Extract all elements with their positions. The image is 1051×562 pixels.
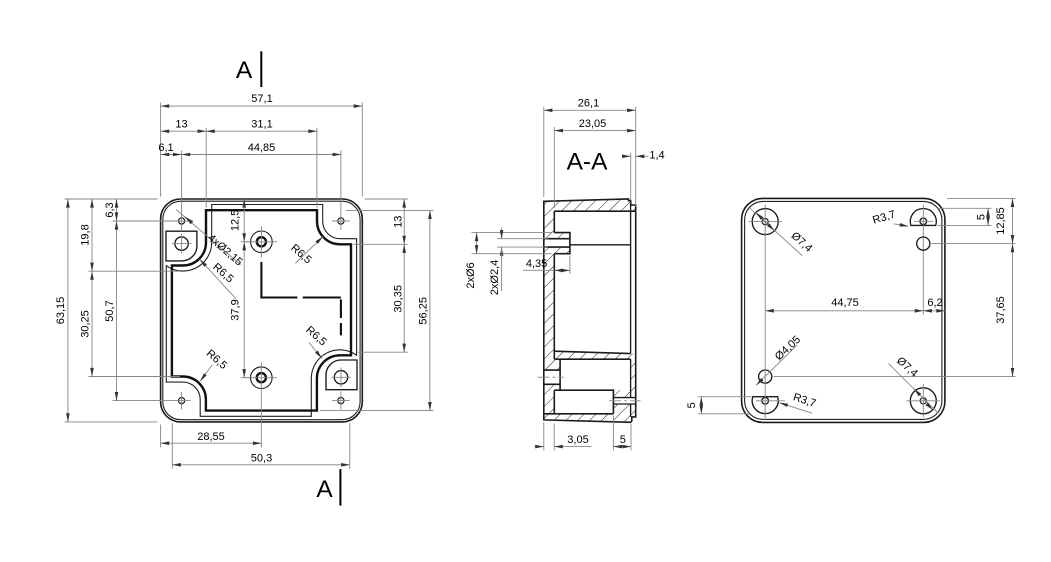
centerline foot hole (609, 400, 641, 402)
dim 5 top-right (937, 207, 992, 209)
hatch boss2 (554, 359, 560, 390)
rim step verticals (630, 205, 632, 417)
outer profile of section (544, 199, 636, 422)
dim 12,85 (947, 197, 1016, 199)
svg-text:12,85: 12,85 (995, 207, 1007, 235)
label R6,5 bottom-left (200, 365, 212, 382)
svg-text:6,2: 6,2 (927, 297, 942, 309)
svg-text:5: 5 (620, 434, 626, 446)
centerline boss2 hole (538, 376, 565, 378)
svg-text:30,25: 30,25 (79, 310, 91, 338)
recess circle bottom-right (910, 388, 936, 414)
svg-text:6,1: 6,1 (158, 142, 173, 154)
hatch shelf band (554, 351, 630, 359)
svg-text:63,15: 63,15 (55, 297, 67, 325)
dim 19,8 left (89, 270, 181, 272)
white hole gap wall hole1 (544, 239, 555, 247)
recess circle top-left (752, 209, 778, 235)
dim 2xØ6 (472, 232, 552, 234)
svg-text:A: A (236, 57, 253, 84)
ceiling line (554, 210, 635, 212)
dim 44,85 top (182, 154, 342, 156)
hidden section path line (261, 262, 341, 336)
outer box inner offset line (163, 201, 360, 420)
hatch left bottom panel (544, 211, 555, 414)
label R6,5 top-right (295, 237, 323, 264)
label Ø4,05 bottom-left (756, 345, 797, 385)
dim 12,5 inner (241, 241, 252, 243)
hatch north wall (544, 199, 636, 211)
dim 63,15 left (65, 198, 158, 200)
section mark A bottom (339, 469, 341, 506)
svg-text:28,55: 28,55 (197, 431, 225, 443)
dim 23,05 (553, 127, 555, 208)
svg-text:44,75: 44,75 (831, 297, 859, 309)
svg-text:37,65: 37,65 (995, 296, 1007, 324)
outer outline bottom view (742, 198, 945, 422)
dim 5 bottom-left (698, 396, 752, 398)
boss1 outline (544, 233, 570, 254)
boss2 hole lines (544, 359, 560, 390)
dim 6,1 top (161, 154, 182, 156)
label R6,5 bottom-right (309, 343, 322, 359)
svg-text:37,9: 37,9 (229, 299, 241, 320)
svg-text:5: 5 (686, 402, 698, 408)
svg-text:50,3: 50,3 (251, 452, 272, 464)
inner cavity outline (172, 210, 351, 410)
dim 6,2 (923, 310, 945, 312)
inner face of bottom panel (553, 211, 555, 414)
hatch boss1 (544, 233, 570, 254)
svg-text:1,4: 1,4 (649, 150, 664, 162)
svg-text:5: 5 (975, 214, 987, 220)
big boss hole top-left (175, 237, 188, 250)
screw boss square bottom-right (326, 360, 357, 390)
small corner hole bottom-right (338, 398, 344, 404)
svg-text:19,8: 19,8 (79, 224, 91, 245)
dim 13 right (365, 198, 408, 200)
dim 3,05 (543, 422, 545, 450)
screw boss square top-left (166, 231, 197, 261)
svg-text:56,25: 56,25 (418, 297, 430, 325)
dim 26,1 (543, 107, 545, 197)
dim 28,55 bottom (160, 425, 162, 448)
rim ledge outline (166, 205, 356, 417)
dim 56,25 right (346, 209, 433, 211)
label Ø7,4 top-left (750, 208, 802, 255)
small corner hole top-left (179, 218, 185, 224)
dim 50,3 bottom (171, 423, 173, 469)
svg-text:3,05: 3,05 (567, 434, 588, 446)
dim 2xØ2,4 (497, 238, 548, 240)
svg-text:2xØ6: 2xØ6 (465, 262, 477, 288)
screw hole circle bottom-left (759, 370, 772, 383)
svg-text:23,05: 23,05 (579, 118, 607, 130)
svg-text:6,3: 6,3 (104, 202, 116, 217)
internal step edge (570, 244, 631, 246)
dim 4,35 (569, 256, 571, 275)
svg-text:13: 13 (393, 216, 405, 228)
label 4xØ2,15 (176, 210, 241, 265)
dim 50,7 left (116, 221, 118, 401)
center hole bottom (250, 367, 272, 389)
post dome top-right (910, 208, 936, 225)
screw hole circle top-right (917, 237, 930, 250)
svg-text:44,85: 44,85 (248, 142, 276, 154)
dim 30,25 left (89, 376, 181, 378)
svg-text:13: 13 (175, 119, 187, 131)
dim 31,1 top (316, 128, 318, 208)
outer box outline (161, 199, 363, 422)
small corner hole bottom-left (179, 398, 185, 404)
label R3,7 top-right (894, 224, 909, 226)
dim 44,75 (765, 310, 923, 312)
svg-text:2xØ2,4: 2xØ2,4 (489, 260, 501, 295)
big boss hole bottom-right (334, 371, 347, 384)
svg-text:31,1: 31,1 (251, 119, 272, 131)
dim 37,65 (774, 376, 1016, 378)
svg-text:30,35: 30,35 (393, 285, 405, 313)
dim 6,3 left (116, 199, 118, 221)
svg-text:12,5: 12,5 (229, 210, 241, 231)
dim 57,1 top (160, 103, 162, 197)
label R3,7 bottom-left (779, 403, 812, 414)
small corner hole top-right (338, 218, 344, 224)
svg-text:50,7: 50,7 (104, 300, 116, 321)
dim 37,9 inner (241, 377, 252, 379)
dim 30,35 right (358, 351, 408, 353)
foot hole lines (613, 398, 635, 404)
label R6,5 top-left (200, 259, 236, 298)
svg-text:A: A (316, 476, 333, 503)
svg-text:A-A: A-A (567, 149, 609, 176)
section mark A top (260, 51, 262, 87)
dim 5 section (612, 416, 614, 451)
inner offset line bottom view (745, 201, 942, 419)
svg-text:26,1: 26,1 (578, 98, 599, 110)
svg-text:4,35: 4,35 (526, 258, 547, 270)
shelf band lines (554, 351, 630, 359)
center hole top (251, 231, 273, 253)
label Ø7,4 bottom-right (889, 364, 939, 414)
dim 13 top (205, 128, 207, 208)
dim 1,4 (630, 153, 632, 200)
hatch south wall (544, 354, 636, 423)
svg-text:57,1: 57,1 (251, 93, 272, 105)
post dome bottom-left (752, 397, 778, 414)
bottom recess lines (544, 390, 614, 414)
